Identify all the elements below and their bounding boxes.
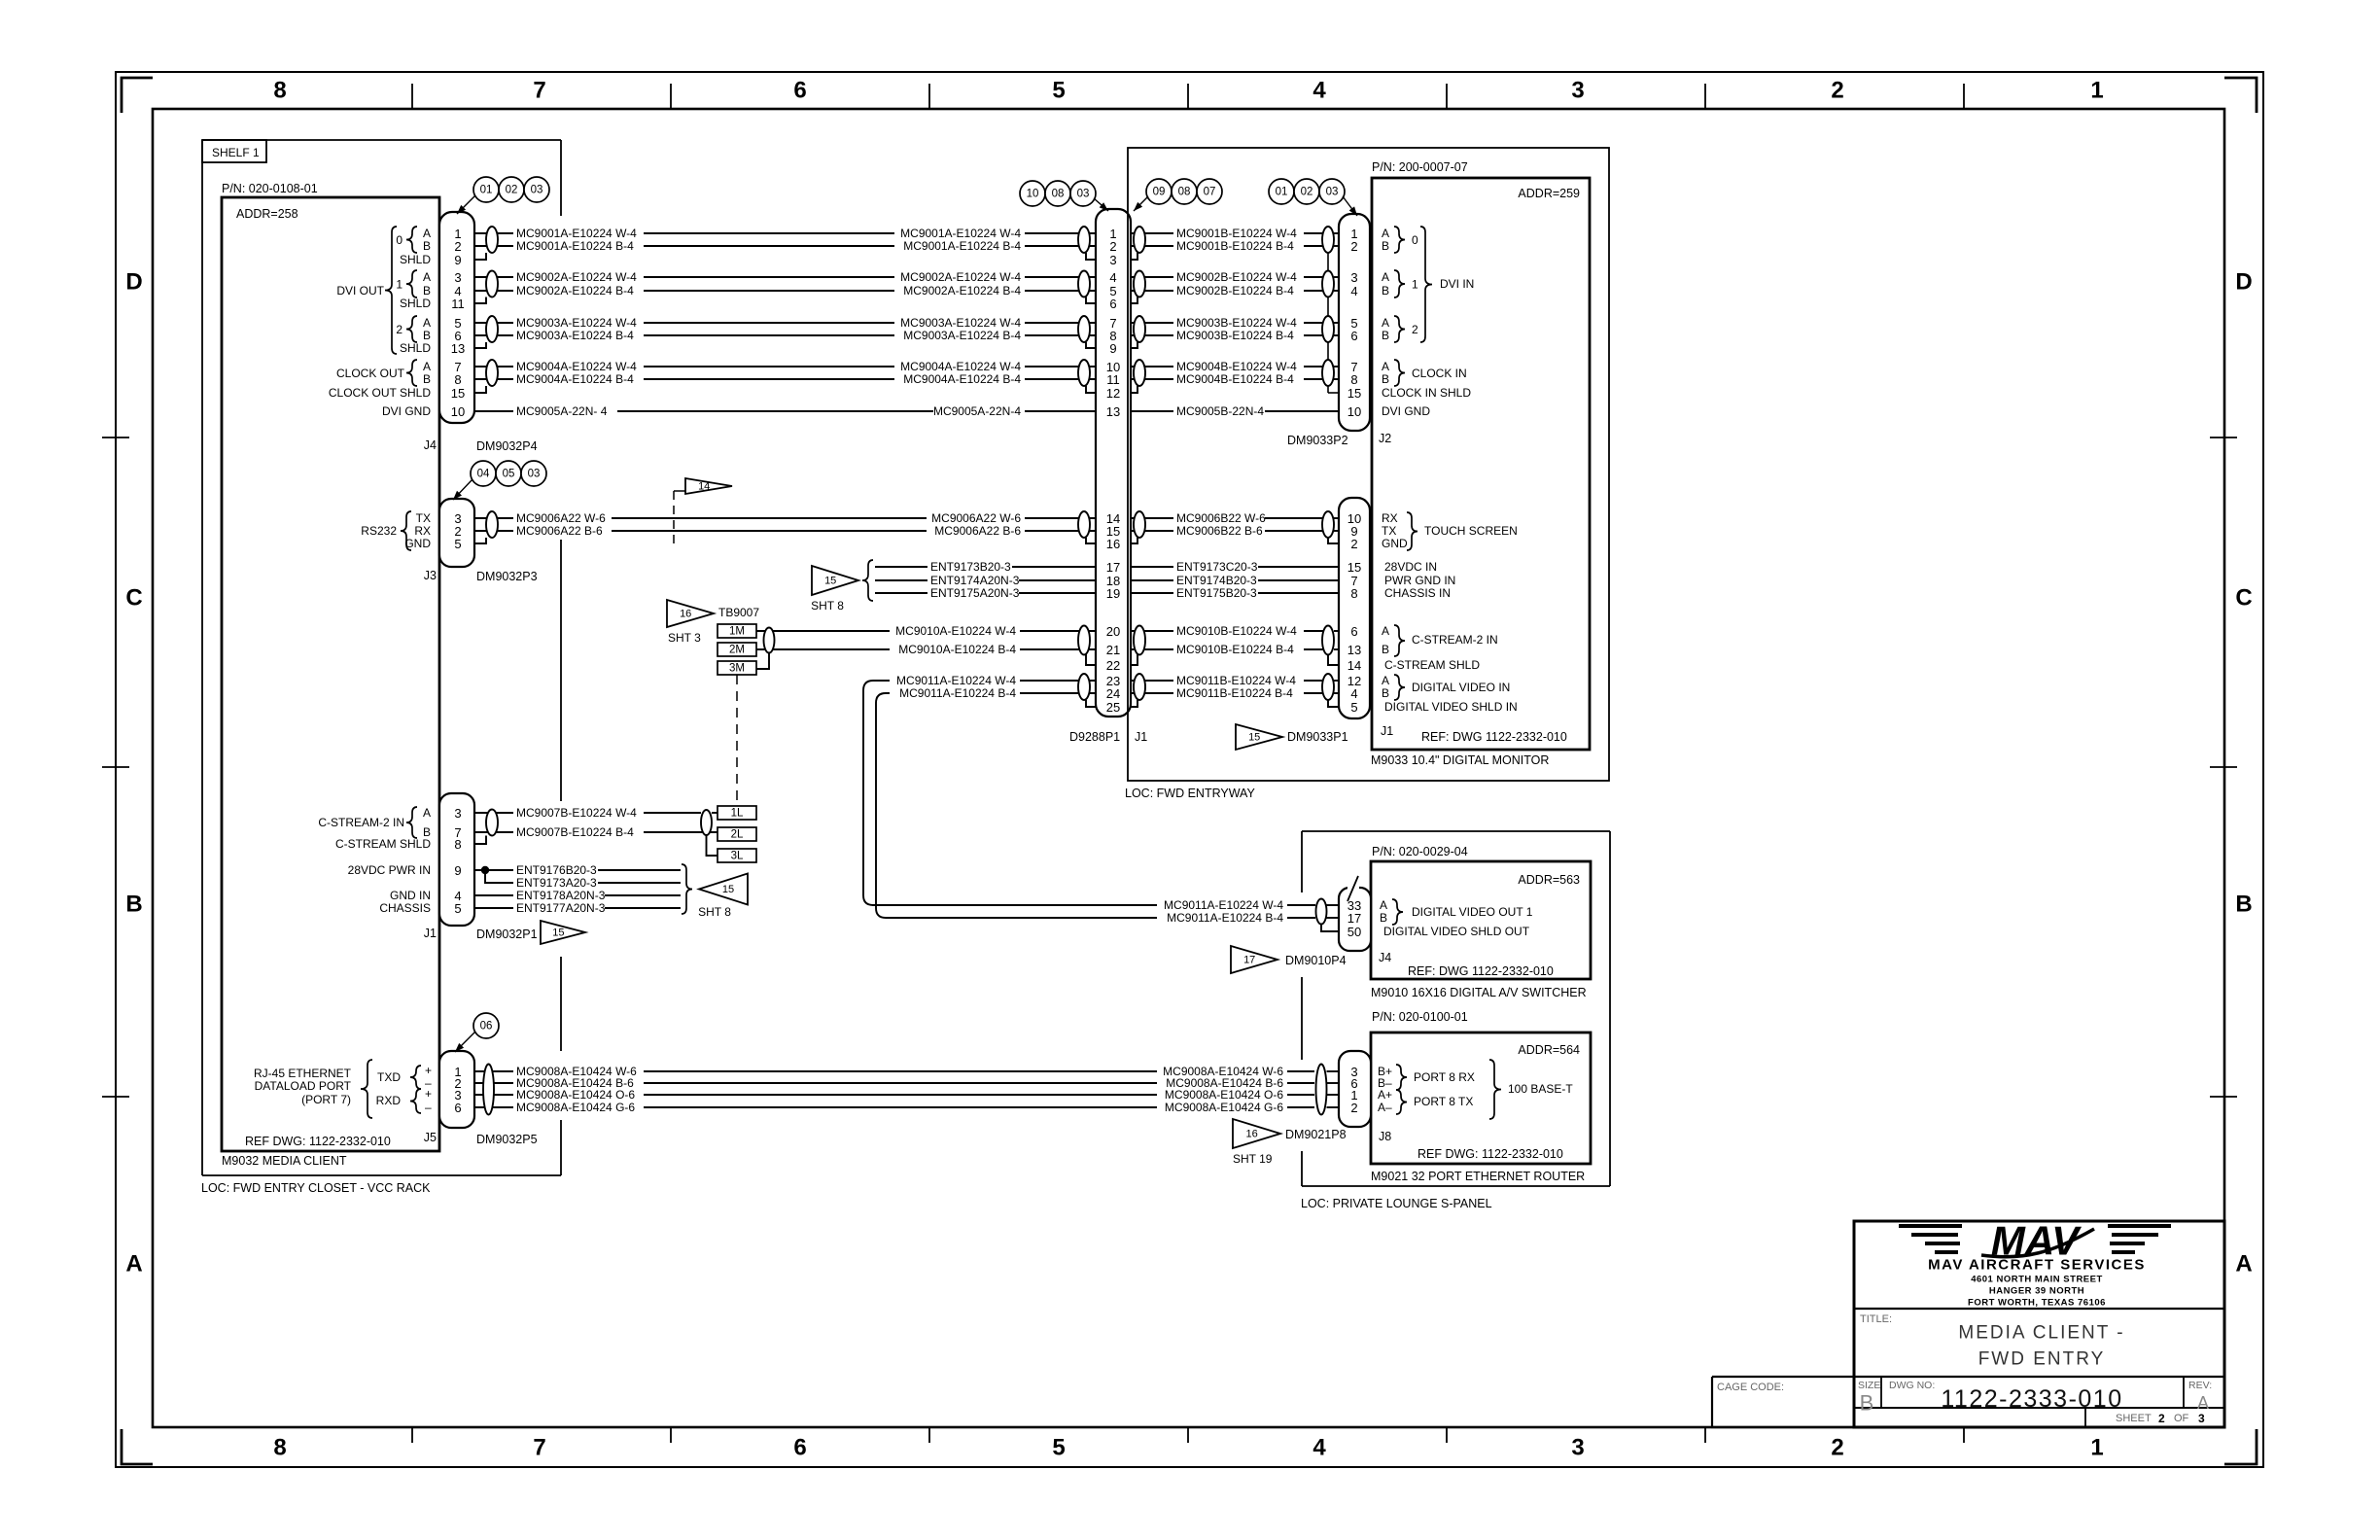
cable shield symbol <box>1134 271 1145 297</box>
svg-text:4: 4 <box>1312 78 1326 104</box>
cable shield symbol <box>1134 360 1145 386</box>
svg-text:24: 24 <box>1106 686 1120 701</box>
svg-text:A+: A+ <box>1378 1088 1392 1102</box>
svg-text:A: A <box>423 227 431 240</box>
svg-text:MC9011A-E10224 W-4: MC9011A-E10224 W-4 <box>896 674 1016 687</box>
svg-text:–: – <box>425 1101 432 1114</box>
shield elbow at D9288P1 <box>1086 386 1096 393</box>
svg-text:3: 3 <box>2198 1412 2205 1425</box>
connector J3 DM9032P3 body <box>439 499 474 567</box>
wire MC9001B-E10224 B-4 <box>1128 245 1328 247</box>
svg-text:3M: 3M <box>729 663 745 675</box>
zone tick top <box>1963 84 1965 109</box>
svg-text:0: 0 <box>396 233 402 247</box>
connector J5 DM9032P5 body <box>439 1051 474 1128</box>
svg-text:B: B <box>423 239 431 253</box>
svg-text:MC9002A-E10224 B-4: MC9002A-E10224 B-4 <box>516 284 634 297</box>
svg-text:PORT 8 RX: PORT 8 RX <box>1414 1070 1475 1084</box>
cable circles 09 08 07 at J1 <box>1146 179 1172 204</box>
svg-text:B: B <box>1382 643 1389 656</box>
svg-text:3L: 3L <box>731 851 744 862</box>
connector J2 monitor body <box>1339 214 1370 431</box>
terminal 2M <box>717 643 756 656</box>
svg-text:A: A <box>423 270 431 284</box>
shield tail to pin 50 <box>1321 925 1339 932</box>
connector J4 M9010 body <box>1339 888 1371 951</box>
shield elbow at D9288P1 <box>1086 342 1096 348</box>
cable shield symbol <box>486 810 498 836</box>
svg-text:3: 3 <box>454 270 461 285</box>
svg-text:11: 11 <box>451 297 465 311</box>
svg-text:J1: J1 <box>424 927 437 940</box>
svg-text:J1: J1 <box>1135 730 1147 744</box>
M9033 box ADDR=259 <box>1372 178 1590 750</box>
zone tick bottom <box>1187 1427 1189 1443</box>
svg-text:DVI IN: DVI IN <box>1440 277 1474 291</box>
svg-text:MC9011B-E10224 W-4: MC9011B-E10224 W-4 <box>1176 674 1296 687</box>
svg-text:07: 07 <box>1204 187 1216 198</box>
svg-text:1L: 1L <box>731 808 744 820</box>
flag triangle 15 DM9032P1 <box>541 921 585 944</box>
flag triangle 15 SHT 8 <box>812 566 858 595</box>
svg-text:MC9006B22 W-6: MC9006B22 W-6 <box>1176 511 1266 525</box>
label MC9004A-E10224 W-4 left <box>513 360 644 373</box>
svg-text:CLOCK OUT: CLOCK OUT <box>336 367 405 380</box>
cable shield symbol at 1L <box>701 810 712 835</box>
svg-text:J2: J2 <box>1379 432 1391 445</box>
svg-text:SHT 3: SHT 3 <box>668 631 701 645</box>
svg-text:TB9007: TB9007 <box>718 606 759 619</box>
svg-text:C-STREAM SHLD: C-STREAM SHLD <box>335 837 431 851</box>
svg-text:6: 6 <box>1350 624 1357 639</box>
svg-text:MC9002A-E10224 W-4: MC9002A-E10224 W-4 <box>516 270 637 284</box>
svg-text:MC9004A-E10224 B-4: MC9004A-E10224 B-4 <box>516 372 634 386</box>
cable shield symbol <box>486 316 498 342</box>
svg-text:12: 12 <box>1106 386 1120 401</box>
zone tick top <box>1446 84 1448 109</box>
svg-text:MC9005B-22N-4: MC9005B-22N-4 <box>1176 404 1264 418</box>
svg-text:3: 3 <box>1571 78 1584 104</box>
label MC9004B-E10224 W-4 <box>1173 360 1304 373</box>
svg-text:ADDR=563: ADDR=563 <box>1518 873 1580 887</box>
svg-text:2: 2 <box>2158 1412 2165 1425</box>
connector D9288P1 body <box>1096 209 1131 717</box>
cable shield symbol <box>1134 316 1145 342</box>
svg-text:MAV AIRCRAFT SERVICES: MAV AIRCRAFT SERVICES <box>1928 1257 2146 1274</box>
wire MC9008A-E10424 W-6 <box>474 1070 1314 1072</box>
svg-text:19: 19 <box>1106 586 1120 601</box>
svg-text:2: 2 <box>1350 239 1357 254</box>
svg-text:A: A <box>1382 360 1389 373</box>
shield tail to C-STREAM SHLD pin 14 <box>1328 654 1339 666</box>
connector J1 monitor body <box>1339 498 1370 718</box>
cable shield symbol at J5 <box>483 1065 494 1115</box>
leader to J2 <box>1343 196 1357 216</box>
svg-text:14: 14 <box>1347 658 1361 673</box>
svg-text:01: 01 <box>480 185 493 196</box>
svg-text:06: 06 <box>480 1021 493 1032</box>
zone tick left <box>102 437 129 438</box>
svg-text:13: 13 <box>1106 404 1120 419</box>
svg-text:02: 02 <box>1301 187 1313 198</box>
svg-text:5: 5 <box>1052 78 1065 104</box>
label MC9003A-E10224 B-4 left <box>513 329 644 342</box>
svg-text:7: 7 <box>533 1435 545 1461</box>
svg-text:17: 17 <box>1347 911 1361 926</box>
svg-text:5: 5 <box>454 537 461 551</box>
stub 1M to shield <box>756 630 773 632</box>
svg-text:TITLE:: TITLE: <box>1860 1313 1892 1325</box>
svg-text:03: 03 <box>1077 189 1090 200</box>
label MC9002B-E10224 B-4 <box>1173 284 1304 297</box>
svg-text:4601 NORTH MAIN STREET: 4601 NORTH MAIN STREET <box>1971 1275 2103 1285</box>
stubs into monitor J1 <box>1334 517 1339 519</box>
svg-text:D: D <box>125 269 142 296</box>
wire MC9010B-E10224 B-4 <box>1128 648 1328 650</box>
svg-text:8: 8 <box>273 1435 286 1461</box>
connector J1 DM9032P1 body <box>439 793 474 926</box>
svg-text:MC9010A-E10224 B-4: MC9010A-E10224 B-4 <box>898 643 1016 656</box>
svg-text:GND: GND <box>404 537 431 550</box>
svg-text:3: 3 <box>1350 270 1357 285</box>
cable shield symbol at TB9007 <box>764 628 775 653</box>
svg-text:4: 4 <box>1109 270 1116 285</box>
svg-text:MC9004A-E10224 W-4: MC9004A-E10224 W-4 <box>900 360 1021 373</box>
svg-text:REF: DWG 1122-2332-010: REF: DWG 1122-2332-010 <box>1421 730 1567 744</box>
wire ENT9177A20N-3 <box>474 907 681 909</box>
svg-text:MC9004B-E10224 B-4: MC9004B-E10224 B-4 <box>1176 372 1294 386</box>
svg-text:MC9004A-E10224 B-4: MC9004A-E10224 B-4 <box>903 372 1021 386</box>
svg-text:17: 17 <box>1106 560 1120 575</box>
svg-text:REF DWG: 1122-2332-010: REF DWG: 1122-2332-010 <box>245 1135 391 1148</box>
zone tick top <box>670 84 672 109</box>
shield elbow right of J1 pin16 <box>1128 538 1137 543</box>
svg-text:9: 9 <box>1109 341 1116 356</box>
svg-text:B: B <box>423 284 431 297</box>
terminal 3M <box>717 661 756 675</box>
svg-text:CLOCK IN SHLD: CLOCK IN SHLD <box>1382 386 1471 400</box>
svg-text:ADDR=259: ADDR=259 <box>1518 187 1580 200</box>
label MC9003A-E10224 B-4 mid <box>894 329 1025 342</box>
svg-text:M9021 32 PORT ETHERNET ROU: M9021 32 PORT ETHERNET ROUTER <box>1371 1170 1585 1183</box>
cable shield symbol at monitor J1 <box>1322 626 1334 655</box>
svg-text:MC9007B-E10224 W-4: MC9007B-E10224 W-4 <box>516 806 637 820</box>
svg-text:SHT 8: SHT 8 <box>811 599 844 612</box>
svg-text:MC9002A-E10224 B-4: MC9002A-E10224 B-4 <box>903 284 1021 297</box>
cable shield symbol at M9010 J4 <box>1316 899 1327 925</box>
wire ENT9173B20-3 <box>875 566 1096 568</box>
stub to J2 <box>1334 366 1339 367</box>
flag triangle 16 SHT 3 <box>667 600 714 627</box>
svg-text:MC9003B-E10224 B-4: MC9003B-E10224 B-4 <box>1176 329 1294 342</box>
logo speed lines right <box>2108 1224 2171 1228</box>
M9010 box ADDR=563 <box>1371 861 1591 979</box>
MAV logo swoosh <box>1981 1229 2094 1257</box>
cage code box <box>1712 1377 1854 1427</box>
shield stub pin 13 <box>474 342 486 348</box>
shield elbow right of J1 pin25 <box>1128 700 1137 707</box>
svg-text:MC9005A-22N- 4: MC9005A-22N- 4 <box>516 404 608 418</box>
J4 M9010 break slash <box>1347 876 1358 901</box>
svg-text:MC9003A-E10224 B-4: MC9003A-E10224 B-4 <box>516 329 634 342</box>
label MC9003B-E10224 W-4 <box>1173 316 1304 330</box>
svg-text:6: 6 <box>1350 329 1357 343</box>
svg-text:1: 1 <box>396 278 402 292</box>
svg-text:2: 2 <box>396 323 402 336</box>
svg-text:DM9032P5: DM9032P5 <box>476 1133 538 1146</box>
svg-text:01: 01 <box>1276 187 1288 198</box>
svg-text:DM9033P2: DM9033P2 <box>1287 434 1348 447</box>
svg-text:ENT9175A20N-3: ENT9175A20N-3 <box>930 586 1020 600</box>
svg-text:J4: J4 <box>424 438 437 452</box>
terminal 2L <box>717 827 756 841</box>
svg-text:MC9001A-E10224 B-4: MC9001A-E10224 B-4 <box>903 239 1021 253</box>
svg-text:DM9021P8: DM9021P8 <box>1285 1128 1347 1141</box>
wire MC9004B-E10224 B-4 <box>1128 378 1328 380</box>
svg-text:ENT9173C20-3: ENT9173C20-3 <box>1176 560 1258 574</box>
svg-text:REF: DWG 1122-2332-010: REF: DWG 1122-2332-010 <box>1408 964 1554 978</box>
svg-text:+: + <box>425 1064 432 1077</box>
svg-text:MC9001A-E10224 W-4: MC9001A-E10224 W-4 <box>900 227 1021 240</box>
svg-text:MC9001A-E10224 W-4: MC9001A-E10224 W-4 <box>516 227 637 240</box>
svg-text:J1: J1 <box>1381 724 1393 738</box>
cable shield symbol <box>1078 626 1090 655</box>
svg-text:MC9002B-E10224 B-4: MC9002B-E10224 B-4 <box>1176 284 1294 297</box>
svg-text:4: 4 <box>1350 686 1357 701</box>
svg-text:SHEET: SHEET <box>2116 1413 2152 1424</box>
stubs into monitor J1 <box>1334 630 1339 632</box>
svg-text:A: A <box>1382 270 1389 284</box>
svg-text:B: B <box>1382 239 1389 253</box>
cable shield symbol <box>1134 626 1145 655</box>
svg-text:GND IN: GND IN <box>390 889 431 902</box>
svg-text:B: B <box>2235 892 2252 918</box>
svg-text:MC9006B22 B-6: MC9006B22 B-6 <box>1176 524 1263 538</box>
svg-text:08: 08 <box>1052 189 1065 200</box>
svg-text:09: 09 <box>1153 187 1166 198</box>
svg-text:PWR GND IN: PWR GND IN <box>1384 574 1455 587</box>
svg-text:ENT9178A20N-3: ENT9178A20N-3 <box>516 889 606 902</box>
svg-text:A: A <box>1382 674 1389 687</box>
zone tick right <box>2210 437 2237 438</box>
svg-text:B: B <box>1380 911 1387 925</box>
flag triangle 14 <box>685 478 732 494</box>
svg-text:50: 50 <box>1347 925 1361 939</box>
fan-in brace to flag 15 SHT 8 <box>682 864 692 914</box>
svg-text:B: B <box>1860 1391 1874 1416</box>
svg-text:8: 8 <box>1350 372 1357 387</box>
wire ENT9173C20-3 <box>1128 566 1339 568</box>
svg-text:GND: GND <box>1382 537 1408 550</box>
svg-text:+: + <box>425 1087 432 1101</box>
svg-text:DM9032P3: DM9032P3 <box>476 570 538 583</box>
cable shield symbol <box>1134 674 1145 700</box>
flag triangle 16 DM9021P8 <box>1233 1119 1280 1148</box>
cable shield symbol <box>486 511 498 538</box>
title block logo divider <box>1854 1308 2224 1310</box>
flag triangle 15 SHT 8 <box>699 874 748 905</box>
svg-text:ADDR=564: ADDR=564 <box>1518 1043 1580 1057</box>
svg-text:D: D <box>2235 269 2252 296</box>
cable shield symbol <box>1078 227 1090 253</box>
title block dwg divider <box>1854 1407 2224 1409</box>
logo speed lines left <box>1899 1224 1962 1228</box>
label MC9002A-E10224 B-4 left <box>513 284 644 297</box>
cable shield symbol at J2 <box>1322 271 1334 297</box>
wire MC9011B-E10224 B-4 <box>1128 692 1328 694</box>
svg-text:CHASSIS IN: CHASSIS IN <box>1384 586 1451 600</box>
wire MC9007B-E10224 W-4 <box>474 812 701 814</box>
flag triangle 15 DM9033P1 <box>1236 724 1282 750</box>
svg-text:MC9008A-E10424 G-6: MC9008A-E10424 G-6 <box>1165 1101 1283 1114</box>
svg-text:25: 25 <box>1106 700 1120 715</box>
svg-text:11: 11 <box>1106 372 1120 387</box>
shield stub pin 15 <box>474 386 486 393</box>
svg-text:MC9001B-E10224 B-4: MC9001B-E10224 B-4 <box>1176 239 1294 253</box>
wire MC9002A-E10224 W-4 <box>474 276 1096 278</box>
svg-text:2: 2 <box>1831 78 1843 104</box>
label MC9004A-E10224 B-4 mid <box>894 372 1025 386</box>
svg-text:B: B <box>1382 284 1389 297</box>
cable shield symbol <box>1078 316 1090 342</box>
svg-text:8: 8 <box>1350 586 1357 601</box>
svg-text:2: 2 <box>1350 1101 1357 1115</box>
svg-text:2: 2 <box>1350 537 1357 551</box>
zone tick top <box>1704 84 1706 109</box>
svg-text:1: 1 <box>2090 78 2103 104</box>
monitor enclosure box LOC FWD ENTRYWAY <box>1128 148 1609 781</box>
svg-text:9: 9 <box>454 253 461 267</box>
svg-text:LOC: FWD ENTRY CLOSET - V: LOC: FWD ENTRY CLOSET - VCC RACK <box>201 1181 431 1195</box>
shelf 1 label tab <box>202 140 266 162</box>
wire MC9001A-E10224 B-4 <box>474 245 1096 247</box>
svg-text:TX: TX <box>1382 524 1396 538</box>
wire MC9005A-22N-4 DVI GND <box>474 410 1096 412</box>
svg-text:B: B <box>423 372 431 386</box>
svg-text:15: 15 <box>824 576 836 587</box>
shield elbow at D9288P1 pin22 <box>1086 654 1096 666</box>
svg-text:MC9008A-E10424 O-6: MC9008A-E10424 O-6 <box>1165 1088 1283 1102</box>
shield elbow at D9288P1 pin16 <box>1086 538 1096 543</box>
zone tick bottom <box>1704 1427 1706 1443</box>
svg-text:8: 8 <box>273 78 286 104</box>
svg-text:5: 5 <box>454 901 461 916</box>
svg-text:17: 17 <box>1243 955 1255 966</box>
svg-text:A: A <box>423 806 431 820</box>
wire ENT9178A20N-3 <box>474 894 681 896</box>
svg-text:SHT 8: SHT 8 <box>698 905 731 919</box>
svg-text:DM9010P4: DM9010P4 <box>1285 954 1347 967</box>
svg-text:MC9008A-E10424 G-6: MC9008A-E10424 G-6 <box>516 1101 635 1114</box>
connector J8 M9021 body <box>1339 1051 1371 1127</box>
svg-text:J3: J3 <box>424 569 437 582</box>
svg-text:2: 2 <box>1109 239 1116 254</box>
svg-text:MC9002A-E10224 W-4: MC9002A-E10224 W-4 <box>900 270 1021 284</box>
wire MC9002B-E10224 B-4 <box>1128 290 1328 292</box>
stub to J2 <box>1334 276 1339 278</box>
elbow 3M to shield <box>756 653 769 669</box>
svg-text:DIGITAL VIDEO SHLD OUT: DIGITAL VIDEO SHLD OUT <box>1383 925 1530 938</box>
cable shield symbol <box>1134 511 1145 538</box>
svg-text:MC9003A-E10224 B-4: MC9003A-E10224 B-4 <box>903 329 1021 342</box>
wire MC9003B-E10224 W-4 <box>1128 322 1328 324</box>
wire MC9011A-E10224 W-4 elbow <box>863 681 1315 905</box>
svg-text:CLOCK OUT SHLD: CLOCK OUT SHLD <box>329 386 431 400</box>
svg-text:02: 02 <box>506 185 518 196</box>
junction dot pin 9 <box>481 866 489 874</box>
svg-text:A: A <box>125 1251 142 1277</box>
svg-text:DVI GND: DVI GND <box>1382 404 1430 418</box>
svg-text:21: 21 <box>1106 643 1120 657</box>
stub to J2 <box>1334 322 1339 324</box>
svg-text:SHELF 1: SHELF 1 <box>212 146 260 159</box>
svg-text:M9033 10.4" DIGITAL MONITOR: M9033 10.4" DIGITAL MONITOR <box>1371 753 1549 767</box>
svg-text:MC9011A-E10224 W-4: MC9011A-E10224 W-4 <box>1164 898 1283 912</box>
svg-text:2M: 2M <box>729 645 745 656</box>
shield tail to DIGITAL VIDEO SHLD IN pin 5 <box>1328 700 1339 707</box>
svg-text:3: 3 <box>1109 253 1116 267</box>
shield elbow at D9288P1 pin25 <box>1086 700 1096 707</box>
svg-text:8: 8 <box>454 372 461 387</box>
cable shield symbol <box>486 271 498 297</box>
svg-text:8: 8 <box>454 837 461 852</box>
svg-text:MC9002B-E10224 W-4: MC9002B-E10224 W-4 <box>1176 270 1297 284</box>
cable circles 10 08 03 at D9288P1 <box>1020 181 1045 206</box>
svg-text:MC9006A22 B-6: MC9006A22 B-6 <box>516 524 603 538</box>
leader to J1 line <box>1134 196 1148 211</box>
svg-text:J8: J8 <box>1379 1130 1391 1143</box>
svg-text:MC9010A-E10224 W-4: MC9010A-E10224 W-4 <box>895 624 1016 638</box>
svg-text:6: 6 <box>454 1101 461 1115</box>
label MC9003A-E10224 W-4 mid <box>894 316 1025 330</box>
svg-text:A: A <box>1382 227 1389 240</box>
svg-text:15: 15 <box>552 927 564 939</box>
label MC9001A-E10224 W-4 mid <box>894 227 1025 240</box>
wire MC9005B-22N-4 <box>1128 410 1339 412</box>
svg-text:DWG NO:: DWG NO: <box>1889 1380 1935 1391</box>
svg-text:CAGE CODE:: CAGE CODE: <box>1717 1382 1784 1393</box>
zone tick left <box>102 766 129 768</box>
svg-text:0: 0 <box>1412 233 1418 247</box>
svg-text:6: 6 <box>1109 297 1116 311</box>
svg-text:MC9004A-E10224 W-4: MC9004A-E10224 W-4 <box>516 360 637 373</box>
svg-text:28VDC PWR IN: 28VDC PWR IN <box>348 863 431 877</box>
svg-text:DM9032P1: DM9032P1 <box>476 927 538 941</box>
svg-text:RX: RX <box>414 524 431 538</box>
wire MC9002A-E10224 B-4 <box>474 290 1096 292</box>
wire ENT9176B20-3 <box>474 869 681 871</box>
leader to J4 <box>457 195 475 214</box>
fan-in brace to flag 15 <box>862 560 873 601</box>
svg-text:SHLD: SHLD <box>400 297 431 310</box>
shield elbow right of J1 <box>1128 386 1137 393</box>
svg-text:A: A <box>2235 1251 2252 1277</box>
shield stub pin 8 <box>474 836 486 845</box>
leader to J5 <box>455 1032 475 1052</box>
svg-text:1122-2333-010: 1122-2333-010 <box>1941 1385 2122 1413</box>
svg-text:A–: A– <box>1378 1101 1392 1114</box>
svg-text:FWD ENTRY: FWD ENTRY <box>1978 1349 2106 1370</box>
svg-text:03: 03 <box>528 469 541 480</box>
svg-text:4: 4 <box>1312 1435 1326 1461</box>
svg-text:16: 16 <box>680 609 691 620</box>
wire MC9006B22 B-6 <box>1128 530 1328 532</box>
cable shield symbol at J2 <box>1322 316 1334 342</box>
svg-text:MC9010B-E10224 B-4: MC9010B-E10224 B-4 <box>1176 643 1294 656</box>
svg-text:LOC: PRIVATE LOUNGE S-PANEL: LOC: PRIVATE LOUNGE S-PANEL <box>1301 1197 1492 1210</box>
svg-text:D9288P1: D9288P1 <box>1069 730 1120 744</box>
size divider <box>1880 1377 1882 1408</box>
